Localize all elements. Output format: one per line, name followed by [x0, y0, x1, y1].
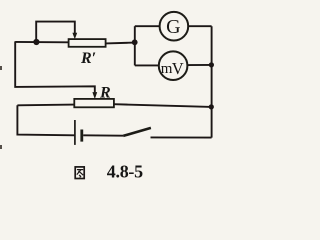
svg-text:V: V [172, 59, 184, 78]
galvanometer U1 G [160, 12, 189, 41]
arrowhead of R' wiper [72, 33, 77, 40]
wire: mV right lead [187, 64, 211, 66]
wire: mV left lead [135, 64, 159, 66]
millivoltmeter U2 mV [159, 51, 188, 80]
wire: switch right segment [151, 136, 212, 138]
resistor R' [69, 39, 106, 47]
battery cell: short thick plate [80, 130, 83, 142]
wire: R' wiper loop [36, 22, 75, 42]
node: junction dot top-left [33, 39, 39, 45]
arrowhead of R wiper [92, 92, 97, 99]
resistor R [74, 99, 114, 107]
wire: R row right [114, 104, 212, 107]
svg-text:R: R [99, 84, 111, 101]
wire: top row left segment [15, 41, 68, 43]
node: junction dot meters-left [132, 39, 138, 45]
scan speck left edge upper [0, 66, 2, 70]
svg-text:4.8-5: 4.8-5 [107, 162, 143, 182]
node: junction dot right mV row [209, 62, 214, 67]
wire: right vertical [211, 26, 213, 137]
switch S blade [123, 128, 151, 136]
caption character 图 (hand drawn) [75, 167, 84, 179]
wire: left vertical 1 and R wiper feed [15, 41, 95, 92]
wire: meters left vertical [134, 26, 136, 65]
node: junction dot right R row [209, 104, 214, 109]
scan speck left edge lower [0, 145, 2, 149]
wire: top row right segment (R' to meters) [106, 42, 135, 45]
wire: R row left [17, 104, 74, 107]
svg-text:G: G [166, 16, 180, 38]
svg-text:R′: R′ [80, 50, 96, 67]
wire: left vertical 2 / battery row left [17, 105, 75, 135]
wire: G right lead [188, 25, 212, 27]
wire: G left lead [135, 25, 160, 27]
battery cell: long plate [74, 120, 76, 145]
wire: battery right to switch [83, 134, 123, 136]
